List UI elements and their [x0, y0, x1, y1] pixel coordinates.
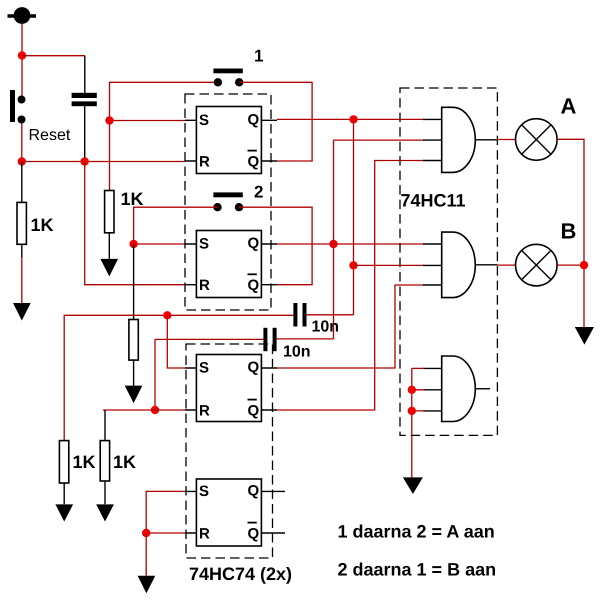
ground under R5	[55, 504, 73, 521]
dashed box latches U1a/U1b	[185, 94, 271, 310]
wire Q3 to AND gate B bottom input	[277, 285, 424, 368]
wire R3 line down to resistor R4	[104, 410, 106, 441]
wire Q2 to AND gate B top input	[277, 243, 424, 245]
wire gate A output to lamp A	[497, 139, 515, 141]
wire button2 right to Q-bar of U1b	[239, 207, 312, 285]
wire lamp B to common return	[558, 264, 585, 266]
node Q1 branch	[349, 115, 357, 123]
ground under U1d tie	[138, 576, 156, 593]
wire pulse line to S3 and R4 pull-down	[64, 315, 167, 440]
wire branch to AND gate B middle input	[354, 264, 425, 266]
capacitor C3 10n	[155, 328, 334, 351]
svg-text:Q: Q	[248, 482, 260, 499]
wire C3 left down to R3 line	[154, 339, 156, 410]
wire Q-bar3 to AND gate A bottom input	[277, 161, 424, 411]
svg-text:Reset: Reset	[29, 127, 71, 144]
node S2 junction	[129, 240, 137, 248]
latch U1d 74HC74	[185, 479, 285, 546]
wire U2c inputs tied to ground	[412, 368, 424, 477]
wire U1d tie to ground	[145, 533, 147, 576]
wire to AND gate A middle input	[334, 139, 425, 141]
svg-text:10n: 10n	[283, 344, 311, 361]
svg-text:Q: Q	[248, 526, 260, 543]
svg-text:Q: Q	[248, 111, 260, 128]
node U2c bottom input	[408, 407, 416, 415]
capacitor C1 plates	[72, 93, 97, 106]
capacitor C1 bottom lead	[84, 106, 86, 161]
node Q2 branch	[329, 240, 337, 248]
svg-text:S: S	[199, 112, 209, 129]
svg-text:Q: Q	[248, 359, 260, 376]
svg-text:10n: 10n	[312, 319, 340, 336]
svg-text:74HC74 (2x): 74HC74 (2x)	[189, 564, 292, 584]
resistor R3 1K (S2 pull-down)	[129, 320, 138, 386]
ground under R1	[13, 303, 31, 321]
wire VCC to reset capacitor	[22, 55, 85, 57]
node U1d S/R tie	[142, 529, 150, 537]
wire Q1 vertical branch to C2 and B mid	[353, 119, 355, 314]
node lamp return	[580, 261, 588, 269]
svg-text:2: 2	[254, 183, 263, 202]
node U2c mid input	[408, 386, 416, 394]
ground under R3	[125, 386, 143, 404]
pushbutton 1	[213, 69, 243, 87]
AND gate U2a 74HC11	[423, 107, 497, 172]
svg-text:Q: Q	[248, 403, 260, 420]
wire reset rail to R input of latch U1b	[85, 162, 185, 285]
svg-text:1K: 1K	[31, 215, 54, 235]
wire lamp A to common return	[558, 139, 585, 328]
svg-text:R: R	[199, 526, 210, 543]
svg-text:2 daarna 1 = B aan: 2 daarna 1 = B aan	[338, 560, 497, 580]
node VCC/button junction	[18, 51, 26, 59]
svg-text:1K: 1K	[73, 452, 96, 472]
node reset rail left	[18, 157, 26, 165]
wire Q2 vertical branch up to A mid and down to C3	[333, 140, 335, 339]
ground under R2	[100, 259, 118, 277]
node S1 junction	[105, 116, 113, 124]
wire button1/S1 line	[110, 82, 218, 120]
latch U1a 74HC74	[185, 107, 277, 174]
resistor R2 1K (S1 pull-down)	[105, 191, 114, 259]
svg-text:1K: 1K	[113, 452, 136, 472]
svg-text:S: S	[199, 483, 209, 500]
node reset rail / capacitor	[81, 157, 89, 165]
resistor R1 1K (reset pull-down)	[17, 162, 26, 304]
AND gate U2b 74HC11	[423, 232, 497, 298]
wire junction down to S3	[167, 315, 185, 368]
svg-text:74HC11: 74HC11	[401, 191, 466, 211]
pushbutton 2	[213, 192, 243, 211]
svg-text:S: S	[199, 360, 209, 377]
svg-text:A: A	[561, 94, 577, 119]
dashed box latches U1c/U1d	[186, 344, 273, 558]
svg-text:Q: Q	[248, 235, 260, 252]
wire latch U1d inputs tied	[146, 491, 185, 533]
svg-text:1 daarna 2 = A aan: 1 daarna 2 = A aan	[338, 522, 495, 542]
wire button1 right to Q-bar of U1a	[239, 82, 312, 161]
svg-text:R: R	[199, 403, 210, 420]
svg-text:1K: 1K	[121, 189, 144, 209]
node B mid input branch	[349, 261, 357, 269]
AND gate U2c 74HC11	[423, 356, 490, 422]
wire VCC down to reset junction	[21, 24, 23, 97]
svg-text:B: B	[561, 219, 577, 244]
wire gate B output to lamp B	[497, 264, 515, 266]
wire Q1 to AND gate A top input	[277, 118, 424, 120]
svg-text:Q: Q	[248, 154, 260, 171]
dashed box 74HC11	[400, 88, 497, 435]
svg-text:Q: Q	[248, 277, 260, 294]
node R3 line	[151, 406, 159, 414]
latch U1c 74HC74	[185, 355, 277, 422]
latch U1b 74HC74	[185, 231, 277, 298]
wire S1 junction down to R2	[109, 121, 111, 191]
resistor R5 1K	[59, 441, 68, 505]
power supply node VCC	[8, 7, 37, 24]
node pulse line 1	[163, 311, 171, 319]
svg-text:R: R	[199, 154, 210, 171]
ground under R4	[96, 504, 114, 521]
svg-text:S: S	[199, 236, 209, 253]
wire R3 line	[103, 409, 185, 411]
lamp B	[516, 244, 558, 286]
lamp A	[516, 119, 558, 161]
wire S2 junction down to R3	[133, 244, 135, 320]
capacitor C1 (power-on reset) top lead	[84, 56, 86, 93]
svg-text:1: 1	[254, 47, 263, 66]
wire reset rail	[22, 161, 185, 163]
svg-text:R: R	[199, 277, 210, 294]
wire reset button bottom to reset rail	[21, 123, 23, 162]
resistor R4 1K	[100, 441, 109, 505]
ground lamp return	[575, 327, 594, 345]
wire button2 left to S2	[134, 207, 218, 244]
ground under U2c	[403, 477, 423, 494]
capacitor C2 10n	[167, 303, 353, 327]
pushbutton Reset	[10, 90, 26, 124]
